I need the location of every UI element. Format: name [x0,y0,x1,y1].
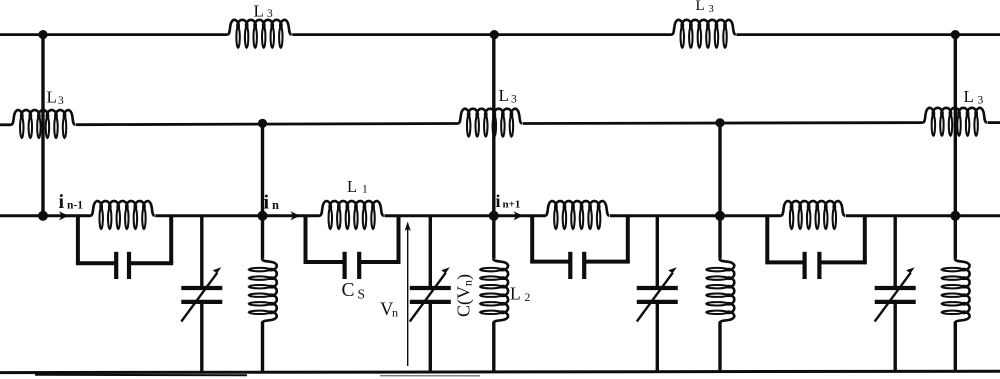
svg-text:1: 1 [362,184,368,196]
svg-text:3: 3 [709,4,714,15]
junction dot top bus right [951,30,960,39]
variable capacitor arrow cell 4 [875,267,915,321]
wire vertical second-bus to L2 top at node n+2 [718,123,721,259]
wire bottom rail echo segment middle [380,375,480,377]
svg-text:n: n [272,198,279,212]
wire second bus segment 3 [523,121,923,125]
junction dot main line node i n [258,211,268,221]
svg-text:i: i [59,191,65,213]
wire left stub of parallel block cell 3 [530,216,534,262]
junction dot main line node i n-1 [38,211,48,221]
inductor L1 (series cell 4) [781,201,845,229]
wire bottom rail echo segment left [35,374,247,377]
label Cs series capacitor [342,280,366,301]
variable capacitor plates cell 1 [181,288,222,302]
junction dot second bus at node n+2 column [715,118,724,127]
variable capacitor plates cell 2 [410,288,451,302]
inductor L3 (second bus, left) [11,110,75,138]
wire left stub of parallel block cell 1 [76,216,80,263]
variable capacitor C(Vn) shunt branch cell 4 [894,216,897,372]
inductor L3 (second bus, right) [923,108,987,136]
svg-text:n-1: n-1 [67,199,83,211]
wire bottom ground rail [0,371,1000,372]
junction dot top bus left [38,30,47,39]
wire second bus segment 2 [76,124,458,125]
wire vertical L2 bottom to ground at node n+3 [954,322,957,371]
inductor L1 (series cell 3) [545,201,609,229]
svg-text:C(Vn): C(Vn) [454,274,475,317]
wire main line segment right [846,214,1000,217]
wire top bus segment right [736,33,1000,36]
svg-text:3: 3 [267,8,273,20]
junction dot second bus at node n column [258,119,267,128]
wire capacitor left lead cell 3 [530,260,570,264]
svg-text:L: L [696,0,705,14]
wire capacitor right lead cell 4 [819,260,866,264]
junction dot main line node n+3 [950,211,960,221]
label C(Vn) varactor value (rotated) [454,274,475,317]
wire capacitor right lead cell 2 [359,260,400,264]
variable capacitor C(Vn) shunt branch cell 1 [200,216,203,372]
wire capacitor left lead cell 4 [765,260,804,264]
label L1 series inductor [347,177,368,196]
svg-text:3: 3 [58,95,64,107]
variable capacitor arrow cell 1 [181,267,221,321]
inductor L2 shunt cell 2 [480,259,508,323]
inductor L3 (top bus, second) [672,20,736,48]
wire main line segment cell n to n+1 [384,214,545,217]
wire left stub of parallel block cell 4 [765,216,769,263]
wire left stub of parallel block cell 2 [304,216,308,262]
svg-text:i: i [496,191,501,211]
wire right stub of parallel block cell 2 [397,216,401,262]
label L3 second bus middle [499,86,518,106]
svg-text:i: i [264,192,270,214]
inductor L1 (series cell 1) [90,201,154,229]
label L3 top bus first [254,1,274,20]
svg-text:n: n [392,305,398,319]
svg-text:3: 3 [511,94,517,106]
junction dot main line node n+2 [715,211,725,221]
wire vertical second-bus to L2 top at node n [261,123,264,258]
svg-text:S: S [358,286,366,301]
svg-text:C: C [342,280,355,301]
label Vn voltage [380,300,398,320]
svg-text:L: L [964,87,974,106]
junction dot main line node i n+1 [489,211,499,221]
wire capacitor left lead cell 2 [304,260,345,264]
svg-text:n+1: n+1 [503,199,521,211]
arrow current i n [291,211,301,220]
wire main line segment cell n-1 to n [155,214,319,217]
wire right stub of parallel block cell 1 [169,216,173,263]
svg-text:2: 2 [525,292,531,304]
capacitor Cs plates (cell 1) [116,252,129,279]
wire top bus segment left [0,33,227,36]
label current i n-1 [59,191,84,213]
variable capacitor arrow cell 2 [410,267,450,321]
svg-text:L: L [47,88,57,107]
wire vertical L2 bottom to ground at node n [261,322,264,372]
arrow current i n-1 [59,211,69,220]
variable capacitor arrow cell 3 [637,267,677,321]
inductor L2 shunt cell 3 [706,259,734,323]
label L3 top bus second [696,0,714,15]
wire main line segment cell n+1 to n+2 [610,214,781,217]
inductor L3 (top bus, first) [227,20,291,48]
variable capacitor C(Vn) shunt branch cell 2 [429,216,432,372]
capacitor Cs plates (cell 4) [805,252,820,279]
label L2 shunt inductor [510,284,531,305]
arrow voltage Vn across varactor [405,222,411,367]
label current i n+1 [496,191,521,211]
svg-text:L: L [499,86,509,105]
wire capacitor right lead cell 3 [584,260,630,264]
wire vertical top-bus through main node n+1 to L2 top [492,35,495,259]
wire vertical top-bus to main node n-1 (x=43) [41,35,44,216]
variable capacitor plates cell 4 [875,288,916,302]
capacitor Cs plates (cell 3) [570,252,584,279]
svg-text:L: L [254,1,264,20]
wire second bus segment 1 [0,123,11,126]
svg-text:3: 3 [978,95,984,107]
wire capacitor left lead cell 1 [76,261,116,265]
label L3 second bus right [964,87,984,107]
label L3 second bus left [47,88,65,108]
label current i n [264,192,280,214]
variable capacitor plates cell 3 [637,288,678,302]
variable capacitor C(Vn) shunt branch cell 3 [656,216,659,372]
wire top bus segment middle [292,33,671,36]
svg-text:L: L [347,177,357,196]
wire right stub of parallel block cell 4 [863,216,867,263]
arrow current i n+1 [514,211,524,220]
wire right stub of parallel block cell 3 [626,216,630,262]
inductor L3 (second bus, middle) [458,109,522,137]
wire vertical L2 bottom to ground at node n+1 [492,322,495,372]
inductor L1 (series cell 2) [320,201,384,229]
wire main line segment left [0,214,90,217]
inductor L2 shunt cell 4 [942,259,970,323]
wire second bus segment 4 [988,121,1000,124]
wire vertical L2 bottom to ground at node n+2 [718,322,721,371]
wire vertical top-bus through main node n+3 to L2 top [954,35,957,259]
inductor L2 shunt cell 1 [249,259,277,323]
wire capacitor right lead cell 1 [129,261,173,265]
svg-text:L: L [510,284,521,304]
capacitor Cs plates (cell 2) [345,252,360,279]
junction dot top bus middle [490,30,499,39]
